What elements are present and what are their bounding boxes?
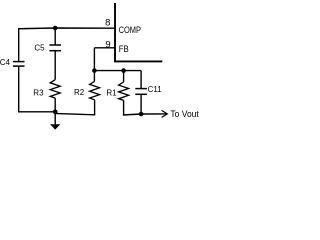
wire left ground rail: [18, 111, 56, 113]
node junction dot R3 / ground: [53, 110, 58, 115]
svg-text:C11: C11: [148, 85, 163, 94]
ground arrow symbol: [50, 124, 60, 129]
wire R3 bottom lead: [54, 98, 56, 112]
node junction dot C11 / Vout: [139, 112, 144, 117]
svg-text:FB: FB: [119, 44, 129, 54]
node junction dot R1 top: [121, 68, 126, 73]
wire R1 top lead: [123, 71, 125, 82]
node junction dot top rail / C5: [53, 26, 58, 31]
node junction dot FB / R2: [92, 68, 97, 73]
wire FB mid rail: [94, 70, 141, 72]
svg-text:C4: C4: [0, 58, 10, 67]
capacitor C5: [49, 45, 61, 51]
wire C11 bottom lead: [140, 94, 142, 114]
wire C5 to R3: [54, 51, 56, 80]
svg-text:C5: C5: [34, 43, 45, 52]
wire R2 bottom lead: [94, 100, 96, 116]
wire C4 left vertical drop: [18, 28, 20, 61]
svg-text:8: 8: [105, 17, 110, 28]
svg-text:9: 9: [105, 40, 110, 51]
wire ground stub: [54, 112, 56, 125]
wire C5 top lead: [54, 28, 56, 45]
wire R2 top lead: [93, 71, 95, 82]
svg-text:To Vout: To Vout: [170, 109, 199, 119]
wire R2 bottom rail: [54, 113, 95, 114]
resistor R2: [90, 81, 100, 100]
svg-text:R2: R2: [74, 88, 85, 97]
capacitor C11: [135, 89, 147, 95]
wire output rail: [123, 114, 167, 115]
resistor R3: [50, 80, 60, 98]
svg-text:R1: R1: [106, 89, 117, 98]
resistor R1: [119, 82, 129, 100]
wire FB pin lead: [94, 47, 115, 49]
wire C11 top lead: [140, 71, 142, 89]
wire FB vertical drop: [93, 48, 95, 71]
wire top rail COMP net: [18, 27, 115, 30]
svg-text:COMP: COMP: [119, 25, 141, 35]
capacitor C4: [13, 62, 25, 67]
wire R1 bottom lead: [123, 100, 125, 115]
svg-text:R3: R3: [33, 89, 44, 98]
wire C4 bottom lead: [18, 66, 20, 112]
arrowhead To Vout: [162, 110, 168, 117]
op-amp U1 IC box left edge: [114, 3, 116, 61]
op-amp U1 IC box bottom edge: [114, 60, 162, 62]
